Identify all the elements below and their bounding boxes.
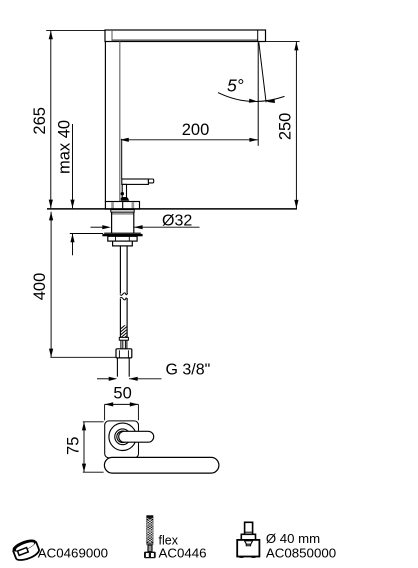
dim 50 line bbox=[105, 403, 139, 405]
flange shading bbox=[112, 213, 134, 215]
svg-text:400: 400 bbox=[31, 273, 49, 301]
spout bar outline bbox=[105, 30, 266, 42]
plan escutcheon square bbox=[105, 421, 139, 458]
plan hub ring inner bbox=[117, 431, 129, 443]
dim Ø32 leader right bbox=[134, 226, 200, 228]
dim G3/8 leader left bbox=[97, 378, 110, 380]
arc arrowhead right-pointing bbox=[249, 99, 258, 104]
spout inner bottom line bbox=[112, 39, 258, 41]
dim max40 lower line bbox=[72, 234, 74, 256]
washer band bbox=[102, 234, 142, 236]
accessory aerator ring icon bbox=[11, 537, 41, 563]
pipe break upper curl bbox=[120, 293, 128, 295]
locknut upper seams bbox=[115, 237, 117, 242]
plan hub ring outer bbox=[115, 429, 131, 445]
base center seam bbox=[122, 202, 124, 210]
cartridge cap wedge bbox=[121, 198, 129, 201]
dim 400 bottom extension line bbox=[50, 356, 116, 358]
accessory flex hose icon bbox=[144, 516, 156, 558]
plan lever bbox=[119, 431, 154, 442]
connector hex nut bbox=[116, 349, 132, 358]
shank left edge bbox=[111, 212, 113, 233]
dim 250 line bbox=[295, 42, 297, 209]
dim 265 top extension bbox=[46, 30, 105, 32]
dim 250 extension bbox=[266, 40, 300, 42]
supply pipe lower bbox=[119, 299, 121, 338]
svg-text:Ø 40 mm: Ø 40 mm bbox=[266, 531, 320, 546]
base shading left bbox=[111, 202, 114, 209]
handle pivot dot bbox=[121, 192, 124, 195]
locknut upper bbox=[108, 236, 137, 241]
svg-text:G 3/8": G 3/8" bbox=[166, 362, 211, 379]
svg-text:AC0469000: AC0469000 bbox=[38, 546, 108, 561]
svg-text:AC0850000: AC0850000 bbox=[266, 546, 336, 561]
handle extension line bbox=[121, 139, 123, 179]
svg-text:200: 200 bbox=[182, 121, 210, 139]
5 deg arc bbox=[218, 93, 285, 102]
svg-text:AC0446: AC0446 bbox=[159, 546, 207, 561]
dim 75 extensions bbox=[83, 421, 104, 423]
body column right edge bbox=[119, 42, 121, 202]
handle neck bbox=[122, 184, 126, 197]
hex nut facets bbox=[118, 350, 120, 357]
arc arrowhead left-pointing bbox=[266, 99, 275, 104]
base shading right bbox=[132, 202, 135, 209]
dim max40 extension bbox=[70, 233, 103, 235]
supply pipe upper bbox=[119, 246, 121, 294]
spout right seam bbox=[257, 30, 259, 41]
accessory cartridge icon bbox=[237, 522, 259, 558]
countertop line bbox=[47, 208, 297, 210]
hose hatch bbox=[118, 321, 130, 346]
hose collar bbox=[119, 337, 128, 340]
svg-text:250: 250 bbox=[277, 113, 295, 141]
dim Ø32 leader left bbox=[91, 226, 104, 228]
svg-text:75: 75 bbox=[65, 437, 83, 455]
dim 75 line bbox=[83, 422, 85, 472]
spout right reference line bbox=[257, 42, 259, 146]
body column left edge bbox=[104, 42, 106, 202]
washer top line bbox=[104, 232, 141, 234]
handle lever tip bbox=[148, 179, 153, 183]
dim 265 line bbox=[50, 31, 52, 209]
svg-text:5°: 5° bbox=[227, 76, 244, 96]
handle lever bar bbox=[122, 179, 149, 184]
dim 200 line bbox=[121, 139, 258, 141]
svg-text:Ø32: Ø32 bbox=[162, 212, 192, 229]
shank right edge bbox=[133, 212, 135, 233]
dim 50 extensions bbox=[104, 404, 106, 420]
spout tilted 5 deg line bbox=[259, 42, 266, 102]
dim G3/8 leader right bbox=[129, 378, 161, 380]
pipe below nut bbox=[116, 358, 118, 377]
spout left seam bbox=[111, 30, 113, 41]
svg-text:max 40: max 40 bbox=[56, 120, 74, 174]
body base bbox=[105, 202, 139, 210]
pipe break lower curl bbox=[120, 297, 128, 299]
plan escutcheon circle bbox=[109, 423, 136, 450]
dim max40 upper line bbox=[72, 124, 74, 208]
svg-text:265: 265 bbox=[31, 107, 49, 135]
dim 400 line bbox=[50, 212, 52, 357]
svg-text:50: 50 bbox=[113, 384, 131, 402]
plan spout bbox=[104, 457, 218, 473]
locknut lower bbox=[113, 241, 133, 246]
hose thread ridges bbox=[120, 340, 122, 349]
under-deck flange bbox=[111, 210, 134, 212]
